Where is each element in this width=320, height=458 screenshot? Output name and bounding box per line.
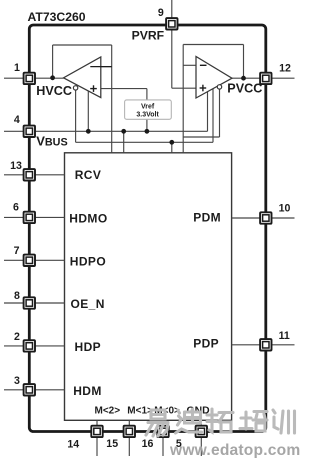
svg-text:PDM: PDM (193, 210, 221, 224)
svg-text:HDPO: HDPO (70, 254, 106, 268)
svg-text:2: 2 (14, 331, 20, 343)
svg-text:15: 15 (106, 438, 118, 450)
svg-text:11: 11 (279, 330, 290, 342)
svg-text:Vref: Vref (141, 104, 155, 111)
svg-text:3.3Volt: 3.3Volt (136, 111, 159, 118)
svg-text:HVCC: HVCC (36, 84, 72, 98)
svg-text:www.edatop.com: www.edatop.com (169, 442, 300, 458)
svg-text:13: 13 (10, 160, 22, 172)
svg-text:3: 3 (14, 375, 20, 387)
svg-text:6: 6 (13, 201, 19, 213)
svg-text:M<1>: M<1> (127, 406, 153, 417)
svg-text:PVCC: PVCC (227, 82, 262, 96)
svg-text:HDMO: HDMO (69, 211, 107, 225)
svg-text:7: 7 (14, 245, 20, 257)
svg-text:4: 4 (14, 114, 20, 126)
svg-text:12: 12 (279, 62, 291, 74)
svg-text:PVRF: PVRF (132, 28, 165, 42)
svg-text:AT73C260: AT73C260 (28, 10, 86, 24)
svg-text:M<2>: M<2> (95, 406, 121, 417)
svg-text:9: 9 (158, 7, 164, 19)
svg-text:HDP: HDP (75, 340, 102, 354)
svg-text:HDM: HDM (73, 384, 102, 398)
svg-text:16: 16 (142, 438, 154, 450)
svg-text:8: 8 (14, 290, 20, 302)
svg-text:VBUS: VBUS (36, 134, 67, 149)
svg-text:OE_N: OE_N (71, 297, 105, 311)
svg-text:10: 10 (279, 202, 291, 214)
svg-text:1: 1 (14, 62, 20, 74)
svg-text:RCV: RCV (75, 168, 102, 182)
svg-text:14: 14 (67, 439, 79, 451)
svg-text:PDP: PDP (193, 337, 219, 351)
